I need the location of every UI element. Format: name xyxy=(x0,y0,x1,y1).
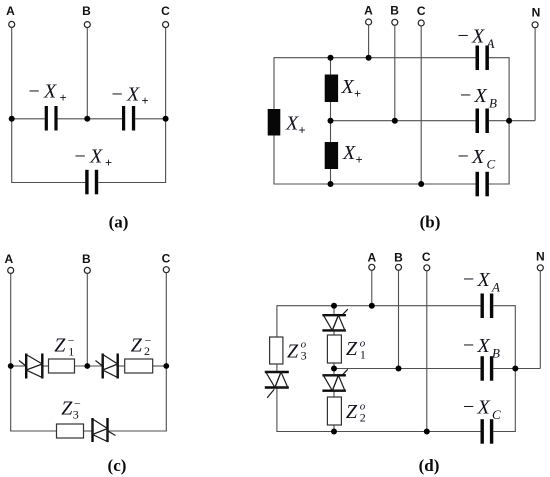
wire middle rail left segment (d) xyxy=(334,368,481,370)
triac lower branch2 (d) xyxy=(322,369,347,390)
terminal C (c) xyxy=(162,252,171,273)
node middle rail right vertical (b) xyxy=(506,118,512,124)
svg-text:C: C xyxy=(417,4,426,18)
svg-text:−: − xyxy=(460,85,471,107)
capacitor -X+ between A and B (a) xyxy=(45,106,58,131)
svg-text:B: B xyxy=(390,4,399,18)
triac T3 bottom branch (c) xyxy=(93,418,116,442)
svg-text:N: N xyxy=(536,250,545,264)
svg-text:A: A xyxy=(4,252,13,266)
wire bottom rail left segment (a) xyxy=(11,182,85,184)
svg-text:X: X xyxy=(474,85,488,107)
reactor X+ left column (b) xyxy=(268,109,281,136)
wire left column lower (d) xyxy=(276,388,278,433)
svg-text:B: B xyxy=(492,346,500,361)
wire middle bus segment cap2-C (a) xyxy=(135,118,165,120)
wire C column (c) xyxy=(165,273,167,431)
svg-text:Z: Z xyxy=(131,334,143,356)
svg-text:1: 1 xyxy=(360,347,366,361)
label -X+ above first capacitor (a) xyxy=(29,81,67,106)
wire right vertical (b) xyxy=(508,57,510,184)
node bottom rail C (d) xyxy=(424,429,430,435)
wire Z1-B-triac2 (c) xyxy=(75,365,103,367)
node top rail A (d) xyxy=(369,303,375,309)
node middle rail B (b) xyxy=(392,118,398,124)
label Z3 (d) xyxy=(287,338,307,362)
svg-text:B: B xyxy=(82,252,91,266)
node C on bus (a) xyxy=(163,116,169,122)
svg-text:Z: Z xyxy=(54,335,66,357)
svg-text:A: A xyxy=(364,4,373,18)
label -X+ above bottom capacitor (a) xyxy=(75,146,113,171)
wire Z2-C (c) xyxy=(153,365,167,367)
wire second branch (b) xyxy=(330,58,332,184)
label -XB (d) xyxy=(463,335,500,361)
svg-text:X: X xyxy=(477,397,491,419)
svg-text:X: X xyxy=(89,146,103,168)
node bottom rail C (b) xyxy=(418,181,424,187)
wire top rail left segment (b) xyxy=(274,57,476,59)
capacitor -XB (d) xyxy=(481,356,494,381)
node A on bus (a) xyxy=(9,116,15,122)
triac T1 on bus (c) xyxy=(19,354,42,379)
svg-text:−: − xyxy=(458,25,469,47)
svg-text:X: X xyxy=(341,76,355,98)
terminal N (d) xyxy=(536,250,545,271)
svg-text:+: + xyxy=(60,91,67,105)
wire branch2 bottom (d) xyxy=(333,425,335,432)
node top rail branch2 (d) xyxy=(331,303,337,309)
node C on bus (c) xyxy=(163,363,169,369)
impedance Z1 box (d) xyxy=(327,335,341,363)
node top rail A (b) xyxy=(366,55,372,61)
svg-text:3: 3 xyxy=(301,349,307,363)
svg-text:A: A xyxy=(486,36,495,51)
wire bottom rail right segment (d) xyxy=(493,431,515,433)
svg-text:B: B xyxy=(394,251,403,265)
node middle rail branch2 (b) xyxy=(328,118,334,124)
svg-text:X: X xyxy=(43,81,57,103)
wire A drop (b) xyxy=(368,25,370,58)
label X+ left reactor (b) xyxy=(285,113,306,138)
capacitor -X+ between B and C (a) xyxy=(122,106,135,131)
wire middle bus segment A-cap1 (a) xyxy=(12,118,45,120)
impedance Z3 box (c) xyxy=(57,424,84,438)
wire middle bus segment cap1-B-cap2 (a) xyxy=(58,118,122,120)
terminal B (d) xyxy=(394,251,403,271)
svg-text:C: C xyxy=(162,252,171,266)
capacitor -XA (d) xyxy=(481,294,494,319)
wire triac2-Z2 (c) xyxy=(118,365,125,367)
svg-text:X: X xyxy=(471,146,485,168)
capacitor -XC (d) xyxy=(481,419,494,444)
wire left column (b) xyxy=(273,57,275,184)
impedance Z1 box (c) xyxy=(49,359,75,373)
terminal N (b) xyxy=(532,6,541,28)
terminal C (b) xyxy=(417,4,426,26)
wire left column upper (d) xyxy=(276,305,278,337)
svg-text:+: + xyxy=(299,124,306,138)
reactor X+ upper second branch (b) xyxy=(325,75,338,103)
svg-text:Z: Z xyxy=(346,338,358,360)
node bottom rail branch2 (d) xyxy=(331,429,337,435)
label -XC (b) xyxy=(458,146,496,172)
wire N drop (b) xyxy=(534,28,536,121)
node B on bus (c) xyxy=(84,363,90,369)
impedance Z2 box (d) xyxy=(327,397,341,425)
svg-text:B: B xyxy=(489,96,497,111)
label Z1 (c) xyxy=(54,334,75,359)
wire bottom rail left segment (d) xyxy=(277,431,481,433)
wire middle rail left segment (b) xyxy=(331,120,476,122)
svg-text:B: B xyxy=(82,4,91,18)
label -XA (b) xyxy=(458,25,495,51)
terminal C (a) xyxy=(161,4,170,28)
wire triac1-Z1 (c) xyxy=(42,365,48,367)
wire C drop (d) xyxy=(426,271,428,432)
wire branch2 top (d) xyxy=(333,306,335,316)
node middle rail branch2 (d) xyxy=(331,366,337,372)
svg-text:1: 1 xyxy=(68,345,74,359)
wire right vertical (d) xyxy=(514,305,516,432)
wire C drop (b) xyxy=(420,26,422,184)
wire top rail right segment (b) xyxy=(489,57,509,59)
reactor X+ lower second branch (b) xyxy=(325,142,338,169)
wire A drop (d) xyxy=(371,271,373,306)
svg-text:−: − xyxy=(463,396,474,418)
capacitor -XC (b) xyxy=(476,172,489,197)
triac T2 on bus (c) xyxy=(96,354,118,379)
wire C column (a) xyxy=(165,28,167,183)
wire Z3-triac3 (c) xyxy=(84,430,93,432)
label -XA (d) xyxy=(463,269,500,295)
wire B drop (b) xyxy=(394,26,396,121)
svg-text:−: − xyxy=(463,269,474,291)
svg-text:−: − xyxy=(75,146,86,168)
svg-text:C: C xyxy=(422,250,431,264)
svg-text:−: − xyxy=(458,146,469,168)
wire bottom rail right segment (a) xyxy=(98,182,166,184)
terminal B (a) xyxy=(82,4,91,28)
wire middle rail right segment to N (d) xyxy=(493,368,540,370)
wire left column between Z3 and triac (d) xyxy=(276,364,278,372)
impedance Z2 box (c) xyxy=(125,359,153,373)
svg-text:(a): (a) xyxy=(109,213,129,232)
svg-text:N: N xyxy=(532,6,541,20)
triac left column (d) xyxy=(265,372,289,398)
svg-text:3: 3 xyxy=(73,407,79,421)
svg-text:X: X xyxy=(342,142,356,164)
node middle rail B (d) xyxy=(396,366,402,372)
wire bottom rail left segment (b) xyxy=(274,183,476,185)
wire B column (c) xyxy=(86,274,88,366)
label -XC (d) xyxy=(463,396,501,422)
terminal B (c) xyxy=(82,252,91,273)
svg-text:−: − xyxy=(463,335,474,357)
svg-text:X: X xyxy=(477,335,491,357)
wire A column (a) xyxy=(11,28,13,183)
impedance Z3 box (d) xyxy=(270,337,283,364)
wire branch2 triac2 to Z2 (d) xyxy=(333,391,335,397)
triac upper branch2 (d) xyxy=(322,309,347,330)
svg-text:X: X xyxy=(477,269,491,291)
label X+ upper reactor (b) xyxy=(341,76,362,101)
svg-text:C: C xyxy=(487,157,496,172)
wire middle rail right segment to N (b) xyxy=(489,120,535,122)
wire bottom rail left (c) xyxy=(10,430,56,432)
wire top rail right segment (d) xyxy=(493,305,515,307)
node A on bus (c) xyxy=(8,363,14,369)
wire A column (c) xyxy=(10,274,12,431)
wire branch2 Z1 to triac2 (d) xyxy=(333,363,335,375)
svg-text:Z: Z xyxy=(61,398,73,420)
svg-text:−: − xyxy=(112,84,123,106)
label Z1 (d) xyxy=(346,337,366,361)
svg-text:X: X xyxy=(285,113,299,135)
terminal A (c) xyxy=(4,252,13,273)
label X+ lower reactor (b) xyxy=(342,142,363,167)
capacitor -XA (b) xyxy=(476,46,489,71)
svg-text:(d): (d) xyxy=(419,456,440,475)
svg-text:A: A xyxy=(6,4,15,18)
node top rail branch2 (b) xyxy=(328,55,334,61)
svg-text:+: + xyxy=(142,94,149,108)
wire B column (a) xyxy=(86,28,88,119)
label -X+ above second capacitor (a) xyxy=(112,84,149,109)
wire bottom rail right segment (b) xyxy=(489,183,509,185)
svg-text:X: X xyxy=(471,26,485,48)
wire bus A-triac1 (c) xyxy=(11,365,27,367)
terminal A (b) xyxy=(364,4,373,26)
svg-text:A: A xyxy=(491,280,500,295)
label Z2 (d) xyxy=(346,400,366,424)
svg-text:+: + xyxy=(356,153,363,167)
label -XB (b) xyxy=(460,85,497,111)
capacitor -X+ bottom (a) xyxy=(85,170,98,195)
svg-text:(b): (b) xyxy=(420,213,441,232)
svg-text:X: X xyxy=(126,84,140,106)
wire N drop (d) xyxy=(539,271,541,369)
label Z3 (c) xyxy=(61,396,81,421)
terminal A (a) xyxy=(6,4,15,27)
node bottom rail branch2 (b) xyxy=(328,181,334,187)
svg-text:A: A xyxy=(367,251,376,265)
svg-text:Z: Z xyxy=(346,401,358,423)
svg-text:(c): (c) xyxy=(108,456,127,475)
svg-text:C: C xyxy=(492,407,501,422)
node middle rail right vertical (d) xyxy=(512,366,518,372)
label Z2 (c) xyxy=(131,333,152,358)
node B on bus (a) xyxy=(84,116,90,122)
svg-text:+: + xyxy=(354,87,361,101)
terminal A (d) xyxy=(367,251,376,271)
svg-text:2: 2 xyxy=(360,410,366,424)
svg-text:−: − xyxy=(29,81,40,103)
svg-text:2: 2 xyxy=(144,344,150,358)
wire B drop (d) xyxy=(398,271,400,369)
terminal C (d) xyxy=(422,250,431,271)
svg-text:C: C xyxy=(161,4,170,18)
wire triac3-C (c) xyxy=(108,430,167,432)
svg-text:Z: Z xyxy=(287,340,299,362)
wire branch2 triac1 to Z1 (d) xyxy=(333,330,335,335)
capacitor -XB (b) xyxy=(476,109,489,134)
terminal B (b) xyxy=(390,4,399,26)
svg-text:+: + xyxy=(105,156,112,170)
wire top rail left segment (d) xyxy=(277,305,481,307)
